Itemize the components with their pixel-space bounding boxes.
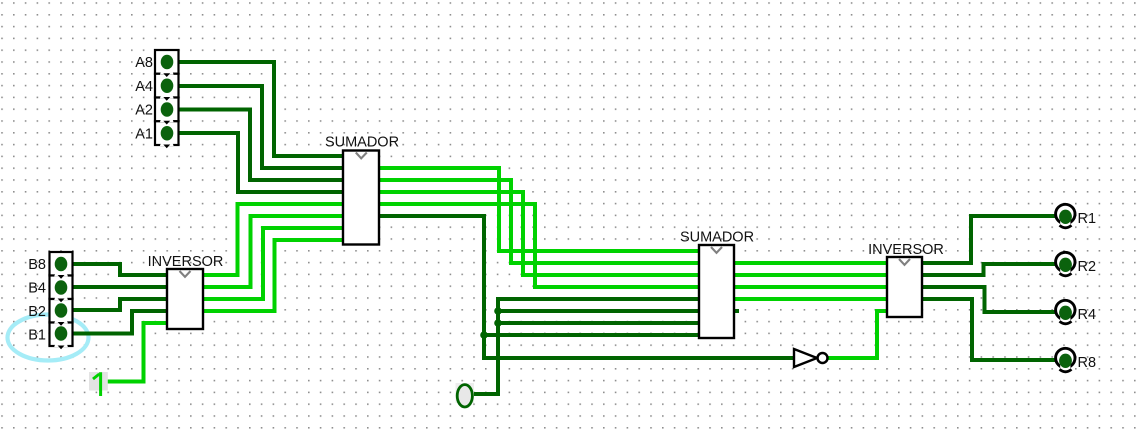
wire INVERSOR1 out3 to SUMADOR1 in7 xyxy=(203,228,343,299)
NOT gate triangle xyxy=(794,349,817,367)
facing notch INVERSOR1 xyxy=(180,271,191,277)
pin boxes A8 A4 A2 A1 xyxy=(155,50,179,145)
svg-text:R2: R2 xyxy=(1078,259,1097,275)
wire SUMADOR2 out2 to INVERSOR2 in2 xyxy=(734,273,887,277)
wire INVERSOR1 out2 to SUMADOR1 in6 xyxy=(203,216,343,287)
wire SUMADOR1 out1 to SUMADOR2 in1 xyxy=(379,168,699,251)
wire constant 1 to INVERSOR1 in5 xyxy=(103,323,167,382)
pin bottom arches stack B xyxy=(54,271,68,350)
junction node on carry net at (484,335) xyxy=(480,331,488,339)
wire INVERSOR1 out4 to SUMADOR1 in8 xyxy=(203,240,343,311)
facing notch SUMADOR1 xyxy=(356,153,367,159)
wire SUMADOR1 carry out to NOT gate input xyxy=(379,216,794,358)
junction node on 0-net at (498,311) xyxy=(494,307,502,315)
facing notch INVERSOR2 xyxy=(899,259,910,265)
glyph constant 1 xyxy=(93,372,101,396)
pin bottom arches stack A xyxy=(160,69,174,148)
svg-text:SUMADOR: SUMADOR xyxy=(325,135,399,151)
wire SUMADOR2 out1 to INVERSOR2 in1 xyxy=(734,261,887,265)
wire B8 to INVERSOR1 in1 xyxy=(65,264,167,275)
wire A8 to SUMADOR1 in1 xyxy=(171,62,343,156)
wire INVERSOR1 out1 to SUMADOR1 in5 xyxy=(203,204,343,275)
wire SUMADOR2 out4 to INVERSOR2 in4 xyxy=(734,297,887,301)
svg-text:INVERSOR: INVERSOR xyxy=(148,254,224,270)
LED R8 xyxy=(1056,348,1075,372)
body INVERSOR1 xyxy=(167,269,203,329)
svg-text:A2: A2 xyxy=(135,103,153,119)
svg-text:R1: R1 xyxy=(1078,211,1097,227)
wire INVERSOR2 out4 to LED R8 xyxy=(922,299,1056,360)
svg-text:A8: A8 xyxy=(135,55,153,71)
wire B1 to INVERSOR1 in4 xyxy=(65,311,167,334)
body INVERSOR2 xyxy=(887,257,922,317)
wire INVERSOR2 out2 to LED R2 xyxy=(922,264,1056,275)
wire branch 0-net to SUMADOR2 in6 xyxy=(498,309,699,313)
wire SUMADOR1 out3 to SUMADOR2 in3 xyxy=(379,192,699,275)
body SUMADOR2 xyxy=(699,245,734,338)
wire A4 to SUMADOR1 in2 xyxy=(171,86,343,168)
pin state dots stack A xyxy=(161,55,174,141)
LED R2 xyxy=(1056,252,1075,275)
selection halo of constant 1 xyxy=(89,372,108,391)
svg-text:SUMADOR: SUMADOR xyxy=(680,230,754,246)
wire INVERSOR2 out1 to LED R1 xyxy=(922,216,1056,263)
svg-text:B4: B4 xyxy=(28,281,46,297)
body SUMADOR1 xyxy=(343,151,379,245)
svg-text:B1: B1 xyxy=(28,328,46,344)
wire A1 to SUMADOR1 in4 xyxy=(171,133,343,192)
pin boxes B8 B4 B2 B1 xyxy=(50,252,73,346)
wire constant 0 to SUMADOR2 in5 xyxy=(472,299,699,394)
junction node on 0-net at (498,323) xyxy=(494,319,502,327)
LED R4 xyxy=(1056,300,1075,324)
wire NOT gate output to INVERSOR2 in5 xyxy=(827,311,887,358)
svg-text:R4: R4 xyxy=(1078,307,1097,323)
svg-text:A4: A4 xyxy=(135,79,153,95)
facing notch SUMADOR2 xyxy=(711,247,722,253)
stub SUMADOR2 carry out xyxy=(734,309,739,313)
LED R1 xyxy=(1056,204,1075,228)
svg-text:INVERSOR: INVERSOR xyxy=(868,242,944,258)
glyph constant 0 xyxy=(456,383,475,403)
pin state dots stack B xyxy=(55,257,68,341)
wire SUMADOR2 out3 to INVERSOR2 in3 xyxy=(734,285,887,289)
svg-text:A1: A1 xyxy=(135,127,153,143)
wire SUMADOR1 out4 to SUMADOR2 in4 xyxy=(379,204,699,287)
wire B4 to INVERSOR1 in2 xyxy=(65,285,167,289)
wire B2 to INVERSOR1 in3 xyxy=(65,299,167,310)
svg-text:B8: B8 xyxy=(28,257,46,273)
wire A2 to SUMADOR1 in3 xyxy=(171,110,343,181)
svg-text:B2: B2 xyxy=(28,304,46,320)
annotation: cyan ellipse around pin B1 xyxy=(8,315,89,361)
svg-text:R8: R8 xyxy=(1078,355,1097,371)
wire SUMADOR1 out2 to SUMADOR2 in2 xyxy=(379,180,699,263)
NOT gate bubble xyxy=(818,353,828,363)
wire INVERSOR2 out3 to LED R4 xyxy=(922,287,1056,312)
wire branch 0-net to SUMADOR2 in7 xyxy=(498,321,699,325)
wire branch carry to SUMADOR2 in8 xyxy=(484,333,699,337)
